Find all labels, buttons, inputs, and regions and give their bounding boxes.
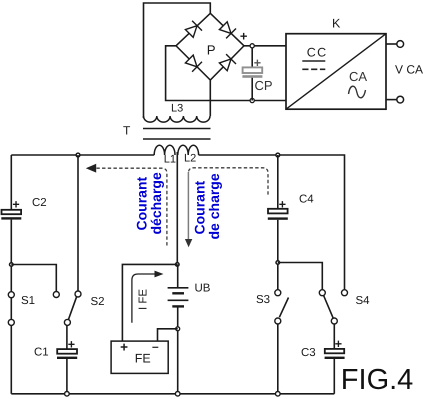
wire + node to converter [244,45,286,47]
junction node top of CP [250,44,254,48]
svg-text:+: + [68,338,75,352]
svg-text:S4: S4 [356,295,371,307]
svg-text:C3: C3 [301,347,316,359]
centre tap wire [176,152,178,264]
S3 top contact circle [275,290,281,296]
switch S1 lever (closed) [10,298,12,320]
junction battery / bottom rail [175,392,180,397]
svg-text:+: + [254,56,261,70]
svg-text:–: – [152,340,159,354]
svg-text:S3: S3 [256,294,270,306]
junction below C4 [276,261,280,265]
converter box K [286,34,386,110]
svg-text:+: + [240,29,248,44]
box FE [111,341,168,373]
S3 bottom contact circle [275,318,281,324]
charge current dashed arrow [185,168,268,248]
svg-text:+: + [12,198,19,212]
svg-text:S2: S2 [91,296,105,308]
wire top rail to S2 contact [77,155,79,291]
bottom rail [11,393,334,395]
top rail left [11,154,154,156]
svg-text:P: P [207,43,216,58]
transformer secondary L1 [154,145,175,155]
S2 idle contact circle [53,292,59,298]
junction C1 / bottom rail [65,392,70,397]
wire S3 to bottom rail [277,324,279,394]
svg-text:C1: C1 [34,347,49,359]
battery junction top [176,263,180,267]
top rail right [199,155,345,289]
wire S2 to C1 [66,325,68,349]
wire top rail to C4 [277,155,279,209]
svg-text:V CA: V CA [395,63,423,77]
capacitor CP (gray) [242,48,262,101]
wire junction to S2 idle contact [11,265,56,292]
diode bottom-right [219,54,236,71]
transformer secondary L2 [178,145,199,155]
svg-text:+: + [335,337,342,351]
wire C3 to bottom rail [333,359,335,394]
switch S1 top contact [8,292,14,298]
capacitor C1 [57,349,77,354]
junction S3 / bottom rail [276,392,281,397]
wire bridge bottom node to L3 right end [209,80,211,116]
C3 switch junction-side contact [319,290,325,296]
capacitor C4 [268,209,288,214]
left rail top segment [10,155,12,210]
svg-text:L2: L2 [184,153,196,165]
svg-text:I FE: I FE [138,289,150,310]
battery UB plates [168,288,189,307]
wire switch to C3 [333,324,335,349]
switch S3 lever (open) [279,298,288,318]
junction left rail branch [76,153,80,157]
converter diagonal [286,34,386,110]
capacitor C3 [325,349,344,353]
svg-text:C4: C4 [299,194,314,206]
switch lever to C3 (closed on junction side) [324,296,334,319]
discharge current dashed arrow [86,164,167,246]
svg-text:de charge: de charge [206,173,222,239]
svg-text:S1: S1 [21,295,35,307]
svg-text:FE: FE [135,352,151,366]
diode top-right [219,22,236,39]
svg-text:+: + [120,340,128,355]
diode top-left [185,21,202,38]
svg-text:K: K [332,17,341,31]
wire junction to C3 switch contact [278,263,323,290]
junction node bottom of CP [250,98,254,102]
svg-text:CC: CC [307,45,328,59]
switch S1 bottom contact [8,319,14,325]
junction right C4 branch [276,153,280,157]
svg-text:C2: C2 [32,197,47,209]
bridge rectifier P diamond [176,13,244,80]
wire bridge minus node down and along bottom [166,46,286,101]
svg-text:L1: L1 [164,154,176,166]
diode bottom-left [185,55,202,72]
svg-text:L3: L3 [171,103,183,115]
capacitor C2 [2,210,22,214]
left rail mid segment [10,220,12,292]
svg-text:CA: CA [349,69,367,84]
left rail bottom segment [10,325,12,393]
battery minus junction [176,327,180,331]
transformer primary L3 [144,116,210,122]
wire C1 to bottom rail [66,359,68,394]
svg-text:UB: UB [195,283,211,295]
output terminal top [386,43,397,45]
wire FE minus to battery minus [158,329,178,341]
svg-text:+: + [279,197,286,211]
output terminal bottom [386,99,397,101]
transformer core lines [143,128,211,130]
junction below C2 [10,263,14,267]
wire bridge top from primary [144,3,211,118]
wire junction to battery [177,264,179,287]
S4 contact circle on top rail branch [342,290,348,296]
svg-text:décharge: décharge [148,172,164,234]
C3 switch moving contact [331,318,337,324]
wire battery junction to FE plus [122,264,177,341]
wire battery to bottom junction [177,306,179,394]
S2 moving contact circle [64,319,70,325]
wire C4 to junction [277,220,279,290]
svg-text:CP: CP [255,78,273,93]
S2 top contact circle [75,291,81,297]
svg-text:FIG.4: FIG.4 [341,364,414,396]
arrow I FE [132,271,164,323]
switch S2 lever (on top-rail contact) [68,297,76,320]
svg-text:T: T [123,124,131,138]
